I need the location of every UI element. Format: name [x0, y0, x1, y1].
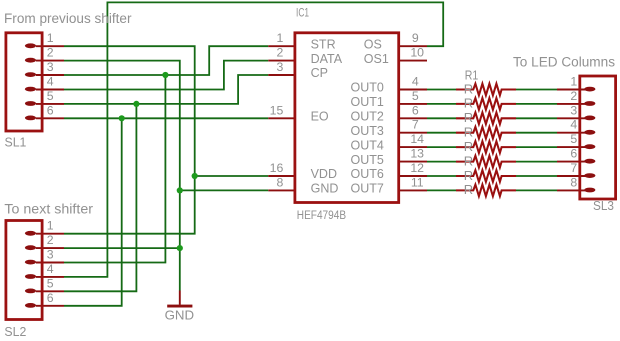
svg-text:8: 8: [276, 175, 283, 189]
svg-text:OUT4: OUT4: [351, 138, 384, 152]
svg-text:16: 16: [270, 161, 284, 175]
svg-text:1: 1: [47, 31, 54, 45]
svg-text:GND: GND: [311, 182, 339, 196]
svg-text:4: 4: [47, 75, 54, 89]
svg-text:R: R: [464, 96, 473, 111]
svg-text:1: 1: [276, 31, 283, 45]
svg-text:From previous shifter: From previous shifter: [4, 11, 132, 26]
svg-text:SL3: SL3: [593, 198, 614, 213]
svg-text:OS1: OS1: [364, 52, 389, 66]
svg-text:R: R: [464, 168, 473, 183]
svg-text:15: 15: [270, 103, 284, 117]
svg-text:HEF4794B: HEF4794B: [297, 208, 346, 222]
svg-text:4: 4: [412, 75, 419, 89]
svg-text:R: R: [464, 81, 473, 96]
svg-text:OUT5: OUT5: [351, 153, 384, 167]
svg-text:7: 7: [570, 161, 577, 175]
svg-text:5: 5: [570, 132, 577, 146]
svg-text:R: R: [464, 110, 473, 125]
svg-text:2: 2: [47, 233, 54, 247]
svg-text:R: R: [464, 182, 473, 197]
svg-text:SL1: SL1: [5, 135, 27, 150]
svg-text:9: 9: [412, 31, 419, 45]
svg-text:3: 3: [276, 60, 283, 74]
svg-text:OUT2: OUT2: [351, 110, 384, 124]
svg-text:OUT6: OUT6: [351, 167, 384, 181]
svg-text:2: 2: [47, 46, 54, 60]
svg-text:R: R: [464, 153, 473, 168]
svg-text:IC1: IC1: [296, 7, 309, 19]
svg-text:To next shifter: To next shifter: [4, 202, 93, 217]
svg-text:2: 2: [570, 89, 577, 103]
svg-text:OS: OS: [364, 37, 382, 51]
svg-text:OUT1: OUT1: [351, 95, 384, 109]
svg-text:5: 5: [412, 89, 419, 103]
svg-text:OUT7: OUT7: [351, 182, 384, 196]
svg-text:5: 5: [47, 89, 54, 103]
svg-text:6: 6: [570, 147, 577, 161]
svg-text:R: R: [464, 139, 473, 154]
svg-text:CP: CP: [311, 66, 328, 80]
svg-text:3: 3: [570, 103, 577, 117]
svg-text:4: 4: [47, 262, 54, 276]
svg-text:4: 4: [570, 118, 577, 132]
svg-text:11: 11: [411, 175, 424, 189]
svg-text:7: 7: [412, 118, 419, 132]
svg-text:5: 5: [47, 276, 54, 290]
svg-text:12: 12: [410, 161, 424, 175]
svg-text:3: 3: [47, 60, 54, 74]
svg-text:1: 1: [47, 219, 54, 233]
svg-text:1: 1: [570, 75, 577, 89]
svg-text:3: 3: [47, 248, 54, 262]
svg-text:2: 2: [276, 46, 283, 60]
svg-text:13: 13: [410, 147, 424, 161]
svg-text:DATA: DATA: [311, 52, 343, 66]
svg-text:To LED Columns: To LED Columns: [513, 55, 615, 70]
svg-text:OUT0: OUT0: [351, 81, 384, 95]
svg-text:R: R: [464, 125, 473, 140]
svg-text:8: 8: [570, 175, 577, 189]
svg-text:VDD: VDD: [311, 167, 337, 181]
svg-text:STR: STR: [311, 37, 336, 51]
svg-text:10: 10: [410, 46, 424, 60]
svg-text:6: 6: [47, 291, 54, 305]
svg-text:OUT3: OUT3: [351, 124, 384, 138]
svg-text:GND: GND: [165, 308, 195, 323]
svg-text:SL2: SL2: [4, 324, 26, 339]
svg-text:EO: EO: [311, 110, 329, 124]
svg-text:6: 6: [47, 103, 54, 117]
svg-text:14: 14: [410, 132, 424, 146]
svg-text:6: 6: [412, 103, 419, 117]
